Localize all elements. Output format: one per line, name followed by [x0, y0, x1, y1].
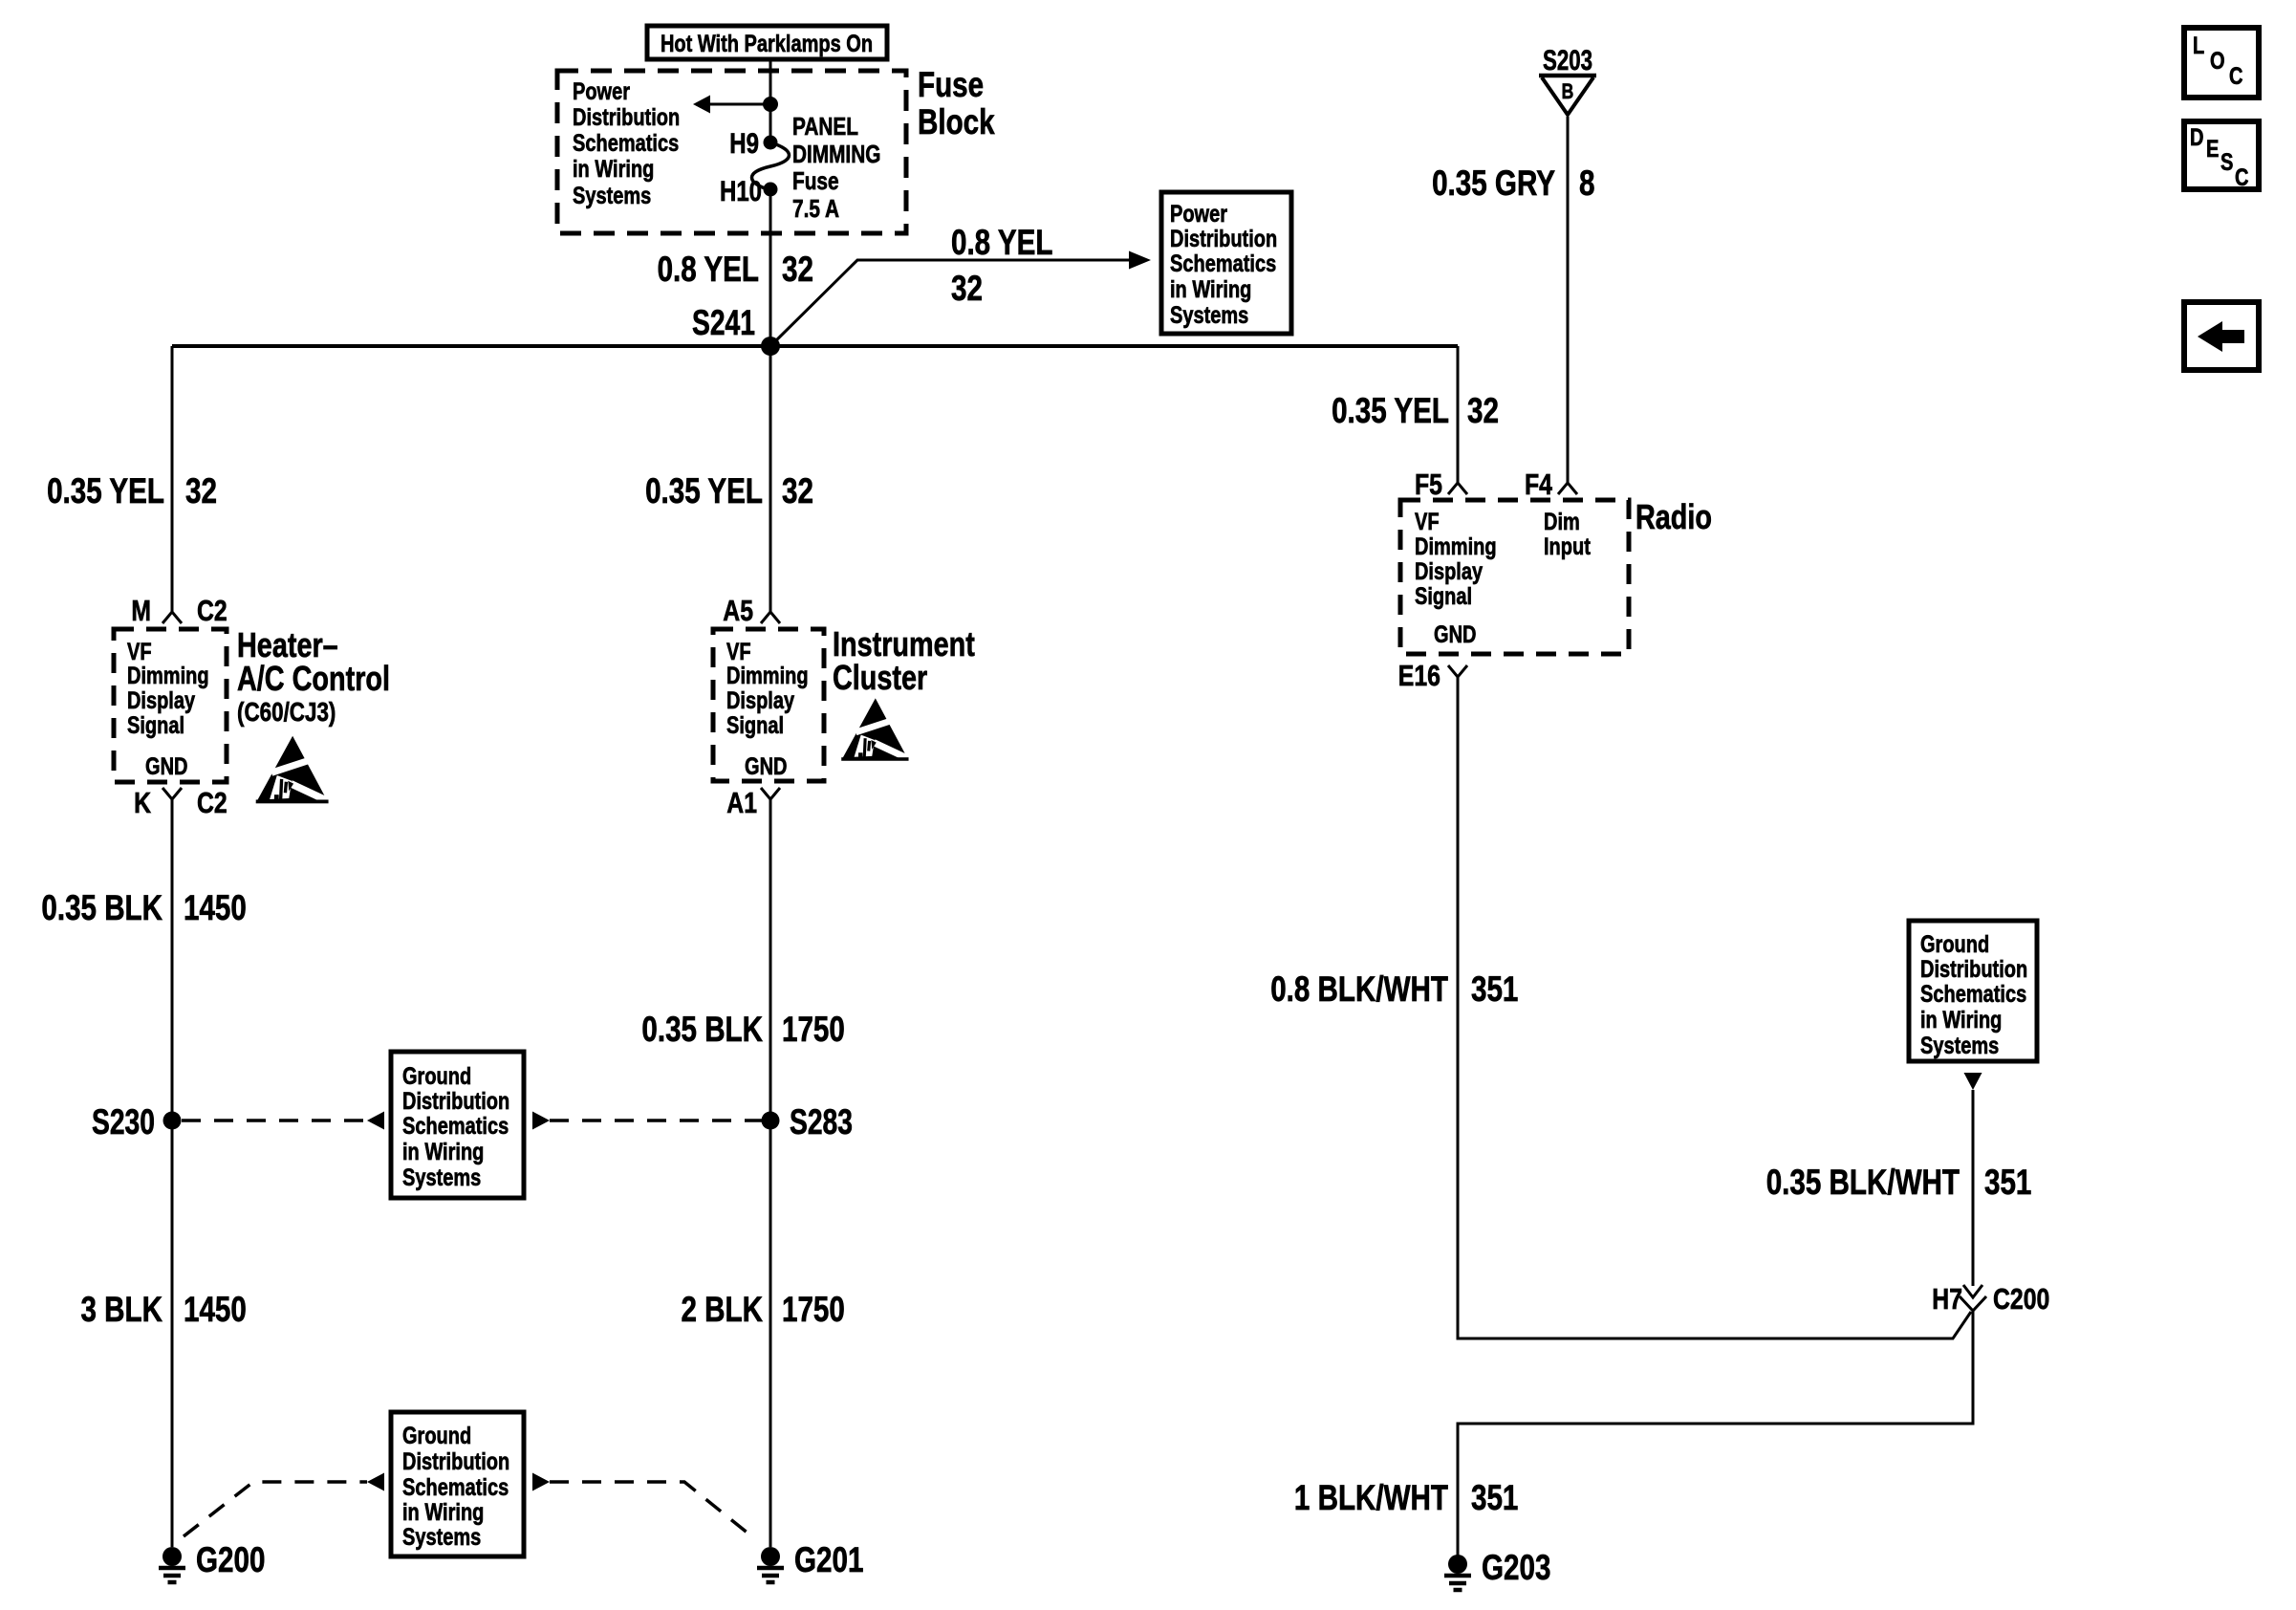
- svg-text:8: 8: [1579, 163, 1595, 203]
- arrowhead (right) at ground distribution box (lower): [532, 1473, 550, 1491]
- svg-text:Radio: Radio: [1635, 497, 1712, 536]
- svg-text:Distribution: Distribution: [1170, 226, 1277, 252]
- svg-text:Schematics: Schematics: [402, 1113, 509, 1140]
- svg-text:32: 32: [951, 269, 983, 308]
- svg-text:0.35 YEL: 0.35 YEL: [645, 471, 763, 511]
- svg-text:M: M: [131, 594, 151, 627]
- wire 3 BLK 1450 to G200: [171, 1120, 174, 1547]
- svg-text:in Wiring: in Wiring: [1920, 1007, 2002, 1033]
- svg-text:F4: F4: [1525, 468, 1553, 501]
- svg-text:Hot With Parklamps On: Hot With Parklamps On: [661, 31, 873, 57]
- pin K of connector C2: [162, 788, 182, 799]
- svg-text:Cluster: Cluster: [833, 658, 927, 697]
- wire 1 BLK/WHT 351 from C200 to G203: [1458, 1311, 1973, 1556]
- dashed reference line from S230: [182, 1119, 367, 1122]
- wire - parklamps feed into fuse block: [769, 59, 772, 143]
- dashed reference line to S283: [550, 1119, 762, 1122]
- svg-text:O: O: [2210, 48, 2225, 75]
- svg-text:A5: A5: [723, 594, 753, 627]
- arrowhead (down) from ground distribution box: [1964, 1073, 1982, 1090]
- pin E16: [1448, 665, 1467, 677]
- svg-text:32: 32: [782, 250, 813, 289]
- svg-text:Dimming: Dimming: [726, 663, 809, 689]
- svg-text:32: 32: [185, 471, 217, 511]
- svg-text:Fuse: Fuse: [918, 65, 984, 104]
- svg-text:7.5 A: 7.5 A: [792, 194, 839, 223]
- svg-text:C2: C2: [197, 786, 227, 819]
- svg-text:in Wiring: in Wiring: [1170, 276, 1251, 303]
- svg-text:S: S: [2220, 149, 2233, 176]
- svg-text:GND: GND: [1434, 621, 1477, 648]
- splice S283: [762, 1112, 780, 1130]
- svg-text:Display: Display: [726, 687, 794, 714]
- svg-text:S230: S230: [92, 1102, 155, 1142]
- svg-text:Block: Block: [918, 102, 995, 141]
- svg-text:351: 351: [1984, 1163, 2031, 1202]
- svg-text:Schematics: Schematics: [1920, 981, 2026, 1008]
- reference box Ground Distribution Schematics (lower): [391, 1412, 524, 1556]
- junction in fuse block: [763, 97, 778, 112]
- wire 0.35 BLK/WHT 351 to C200: [1972, 1090, 1975, 1286]
- svg-text:(C60/CJ3): (C60/CJ3): [237, 697, 336, 727]
- legend box back-arrow: [2184, 302, 2259, 370]
- wire 0.35 BLK 1750: [769, 799, 772, 1120]
- pin F5: [1448, 483, 1467, 494]
- wire branch 0.8 YEL 32 to Power Distribution reference: [770, 260, 1129, 346]
- svg-text:Systems: Systems: [402, 1164, 481, 1191]
- svg-text:Systems: Systems: [402, 1524, 481, 1551]
- pin A1: [761, 788, 780, 799]
- Instrument Cluster (dashed box): [713, 629, 824, 781]
- svg-text:Systems: Systems: [1920, 1033, 1999, 1059]
- svg-text:0.8 YEL: 0.8 YEL: [951, 223, 1052, 262]
- svg-text:K: K: [134, 786, 151, 819]
- node label box "Hot With Parklamps On": [647, 26, 887, 59]
- ESD sensitive device symbol (heater): [256, 736, 335, 804]
- svg-text:VF: VF: [726, 639, 751, 665]
- svg-text:Ground: Ground: [402, 1063, 471, 1090]
- svg-text:0.35 BLK: 0.35 BLK: [41, 888, 162, 927]
- svg-text:351: 351: [1471, 969, 1518, 1009]
- svg-text:Ground: Ground: [1920, 931, 1989, 958]
- Radio (dashed box): [1400, 500, 1629, 654]
- svg-text:0.35 GRY: 0.35 GRY: [1432, 163, 1555, 203]
- svg-text:351: 351: [1471, 1478, 1518, 1517]
- svg-text:Dimming: Dimming: [127, 663, 209, 689]
- svg-text:B: B: [1562, 79, 1574, 103]
- dashed reference line to G201: [550, 1482, 754, 1538]
- reference box Ground Distribution Schematics (right): [1909, 921, 2037, 1061]
- svg-text:L: L: [2193, 33, 2204, 59]
- svg-text:Schematics: Schematics: [402, 1474, 509, 1501]
- svg-text:G200: G200: [196, 1540, 265, 1579]
- ESD sensitive device symbol (cluster): [841, 698, 914, 761]
- Heater-A/C Control (dashed box): [114, 629, 227, 782]
- svg-text:H10: H10: [720, 176, 762, 207]
- svg-text:Dimming: Dimming: [1415, 533, 1497, 560]
- svg-text:G201: G201: [794, 1540, 863, 1579]
- svg-text:1 BLK/WHT: 1 BLK/WHT: [1294, 1478, 1448, 1517]
- svg-text:A1: A1: [726, 786, 757, 819]
- svg-text:E16: E16: [1398, 659, 1440, 692]
- svg-text:H7: H7: [1932, 1282, 1962, 1316]
- svg-text:C200: C200: [1993, 1282, 2049, 1316]
- wire 0.35 BLK 1450: [171, 799, 174, 1120]
- svg-text:Schematics: Schematics: [573, 130, 679, 157]
- arrowhead (left) at ground distribution box: [367, 1112, 384, 1130]
- pin M of connector C2: [162, 612, 182, 623]
- ground G200: [159, 1547, 185, 1582]
- arrowhead to Power Distribution Schematics: [693, 96, 710, 114]
- svg-text:S203: S203: [1543, 45, 1592, 76]
- svg-text:A/C Control: A/C Control: [237, 659, 390, 698]
- dashed reference line from G200: [184, 1482, 367, 1536]
- svg-text:C2: C2: [197, 594, 227, 627]
- svg-text:1750: 1750: [782, 1010, 845, 1049]
- arrowhead (left) at ground distribution box (lower): [367, 1473, 384, 1491]
- svg-text:Signal: Signal: [726, 712, 784, 739]
- svg-text:0.8 BLK/WHT: 0.8 BLK/WHT: [1270, 969, 1448, 1009]
- svg-text:1450: 1450: [184, 888, 247, 927]
- ground G201: [757, 1547, 784, 1582]
- svg-text:Fuse: Fuse: [792, 166, 839, 195]
- svg-text:0.8 YEL: 0.8 YEL: [658, 250, 759, 289]
- svg-text:3 BLK: 3 BLK: [81, 1290, 163, 1329]
- svg-text:Ground: Ground: [402, 1423, 471, 1449]
- svg-text:S241: S241: [692, 303, 755, 342]
- svg-text:in Wiring: in Wiring: [402, 1499, 484, 1526]
- svg-text:Distribution: Distribution: [402, 1088, 509, 1115]
- splice S241: [761, 337, 780, 356]
- svg-text:0.35 YEL: 0.35 YEL: [47, 471, 164, 511]
- svg-text:in Wiring: in Wiring: [402, 1139, 484, 1165]
- legend box LOC: [2184, 28, 2259, 98]
- terminal H9: [764, 136, 778, 150]
- svg-text:2 BLK: 2 BLK: [682, 1290, 764, 1329]
- svg-text:Display: Display: [127, 687, 195, 714]
- wire 0.35 YEL 32 from bus to radio F5: [1457, 346, 1460, 483]
- svg-text:H9: H9: [729, 128, 759, 160]
- svg-text:E: E: [2206, 136, 2219, 163]
- ground G203: [1444, 1555, 1471, 1590]
- svg-text:0.35 BLK: 0.35 BLK: [641, 1010, 763, 1049]
- svg-text:GND: GND: [145, 753, 188, 780]
- svg-text:Power: Power: [573, 78, 630, 105]
- wire 0.35 GRY 8 from S203 to F4: [1567, 117, 1570, 483]
- legend box DESC: [2184, 121, 2259, 189]
- reference box Ground Distribution Schematics (upper): [391, 1052, 524, 1198]
- svg-text:Systems: Systems: [1170, 302, 1248, 329]
- svg-text:Distribution: Distribution: [402, 1448, 509, 1475]
- svg-text:in Wiring: in Wiring: [573, 156, 654, 183]
- wire 0.8 BLK/WHT 351 from E16 to C200: [1458, 677, 1971, 1338]
- svg-text:Signal: Signal: [127, 712, 184, 739]
- svg-text:Systems: Systems: [573, 183, 651, 209]
- fuse "PANEL DIMMING Fuse 7.5 A" element (S-curve): [752, 142, 790, 190]
- svg-text:G203: G203: [1482, 1548, 1550, 1587]
- svg-text:1750: 1750: [782, 1290, 845, 1329]
- svg-text:VF: VF: [1415, 509, 1440, 535]
- in-line connector H7 of C200: [1963, 1285, 1982, 1297]
- wire 2 BLK 1750 to G201: [769, 1120, 772, 1547]
- pin A5: [761, 612, 780, 623]
- arrowhead into Power Distribution box: [1129, 251, 1151, 270]
- svg-text:Distribution: Distribution: [573, 104, 680, 131]
- svg-text:Display: Display: [1415, 558, 1483, 585]
- svg-text:Input: Input: [1544, 533, 1591, 560]
- svg-text:C: C: [2235, 164, 2249, 191]
- wire 0.35 YEL 32 to Heater-A/C control: [171, 346, 174, 612]
- svg-text:PANEL: PANEL: [792, 112, 858, 141]
- wire 0.35 YEL 32 to instrument cluster: [769, 346, 772, 612]
- svg-text:0.35 YEL: 0.35 YEL: [1332, 391, 1449, 430]
- svg-text:C: C: [2229, 63, 2243, 90]
- reference box Power Distribution Schematics in Wiring Systems: [1161, 192, 1291, 334]
- svg-text:F5: F5: [1415, 468, 1442, 501]
- svg-text:32: 32: [782, 471, 813, 511]
- svg-text:Schematics: Schematics: [1170, 250, 1276, 277]
- svg-text:GND: GND: [745, 753, 788, 780]
- svg-text:D: D: [2190, 124, 2204, 151]
- svg-text:Power: Power: [1170, 201, 1227, 228]
- splice S230: [163, 1112, 182, 1130]
- svg-text:DIMMING: DIMMING: [792, 140, 880, 168]
- terminal H10: [764, 183, 778, 197]
- svg-text:Dim: Dim: [1544, 509, 1580, 535]
- svg-text:Distribution: Distribution: [1920, 956, 2027, 983]
- wire 0.8 YEL 32 from fuse to S241: [769, 189, 772, 346]
- wire - branch to power distribution (left arrow): [710, 103, 770, 106]
- svg-text:32: 32: [1467, 391, 1499, 430]
- svg-text:Signal: Signal: [1415, 583, 1472, 610]
- pin F4: [1558, 483, 1577, 494]
- bus wire from S241 (left and right): [172, 344, 1458, 348]
- svg-text:0.35 BLK/WHT: 0.35 BLK/WHT: [1766, 1163, 1960, 1202]
- svg-text:1450: 1450: [184, 1290, 247, 1329]
- fuse block (dashed): [557, 71, 906, 233]
- svg-text:VF: VF: [127, 639, 152, 665]
- arrowhead (right) at ground distribution box: [532, 1112, 550, 1130]
- svg-text:S283: S283: [790, 1102, 853, 1142]
